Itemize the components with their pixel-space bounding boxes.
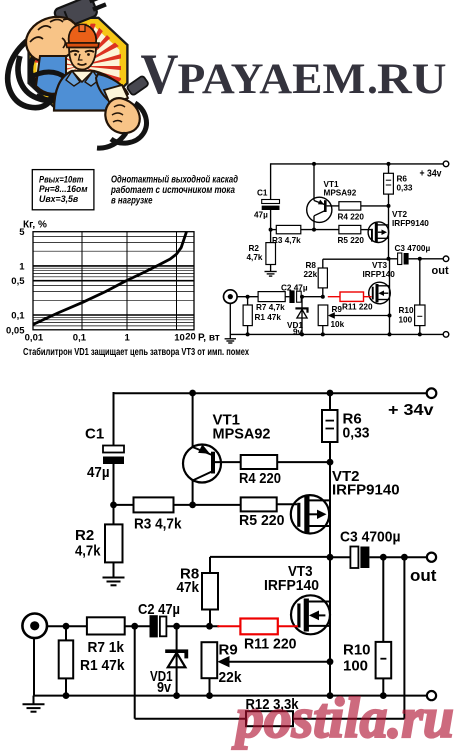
intro italic text [110, 174, 238, 206]
terminal +34v small [443, 161, 449, 167]
node R9 top small [321, 295, 325, 299]
terminal +34v [427, 388, 437, 398]
logo helmet [69, 25, 97, 44]
wire R2 top [113, 505, 115, 525]
resistor R7 small [258, 292, 285, 302]
graph x tick labels [25, 332, 196, 344]
wire R8 bottom small [322, 288, 324, 297]
svg-text:0,05: 0,05 [6, 325, 25, 336]
resistor R7 [87, 617, 125, 634]
svg-text:R5 220: R5 220 [338, 236, 365, 245]
node C3 junction [327, 554, 334, 561]
capacitor C1 [103, 446, 124, 453]
wire bottom rail small [230, 333, 443, 335]
wire VT1 base to R4 [215, 461, 241, 463]
svg-text:4,7k: 4,7k [75, 543, 101, 560]
node C1/R3/R2 small [269, 228, 273, 232]
wire R9 wiper arrow [226, 661, 330, 663]
logo cable end right [126, 75, 149, 95]
wire C1 bottom small [270, 210, 272, 230]
graph horizontal gridlines [33, 236, 194, 326]
resistor R12 [246, 711, 293, 726]
wire R4 to vertical [277, 461, 330, 463]
node R10 top small [418, 257, 422, 261]
svg-text:R1 47k: R1 47k [80, 657, 125, 674]
logo cable across forearm [30, 72, 66, 78]
wire R9 arrow small [333, 315, 390, 317]
wire main vertical small [388, 194, 390, 259]
logo plug [53, 0, 108, 30]
svg-text:0,33: 0,33 [343, 425, 370, 442]
svg-text:1: 1 [19, 261, 25, 272]
zener VD1 [176, 626, 178, 695]
node R9 arrow junction [327, 658, 334, 665]
node R4 vertical junction [327, 459, 334, 466]
wire jack to R7 [47, 625, 87, 627]
svg-text:9v: 9v [157, 679, 172, 696]
wire R5 VT2 gate small [361, 229, 371, 231]
svg-text:+ 34v: + 34v [388, 402, 434, 419]
PARAMBOX_GROUP [32, 170, 238, 210]
svg-text:100: 100 [343, 658, 368, 675]
resistor R1 [65, 626, 67, 640]
mosfet VT2 small [368, 222, 389, 243]
svg-text:Рн=8...16ом: Рн=8...16ом [39, 184, 88, 194]
resistor R3 [134, 497, 174, 512]
svg-text:MPSA92: MPSA92 [213, 426, 271, 443]
wire C3 out small [409, 258, 444, 260]
svg-text:C1: C1 [85, 426, 104, 443]
node VT1 collector junction [189, 502, 196, 509]
wire bottom rail [34, 695, 428, 697]
svg-text:Рвых=10вт: Рвых=10вт [39, 174, 84, 184]
wire to C3 [330, 556, 350, 558]
svg-text:22k: 22k [219, 669, 243, 686]
svg-text:IRFP140: IRFP140 [363, 270, 396, 279]
WATERMARK [231, 687, 454, 750]
svg-text:C2 47µ: C2 47µ [138, 601, 180, 618]
svg-text:MPSA92: MPSA92 [324, 189, 357, 198]
graph y tick labels [6, 227, 25, 336]
svg-text:R4 220: R4 220 [338, 213, 365, 222]
svg-text:R10: R10 [343, 642, 371, 659]
svg-text:22k: 22k [304, 270, 318, 279]
wire R7 to C2 [125, 625, 150, 627]
svg-text:R2: R2 [75, 527, 94, 544]
logo face [69, 48, 96, 70]
mosfet VT3 [291, 595, 330, 634]
GRAPH_GROUP [6, 220, 220, 344]
capacitor C2 small [285, 296, 289, 298]
node arrow junction small [388, 314, 392, 318]
node feedback top junction [401, 554, 408, 561]
logo cable extra loop [18, 56, 74, 101]
logo cable right [111, 103, 146, 143]
svg-text:R11 220: R11 220 [244, 636, 297, 653]
svg-text:VT2: VT2 [392, 210, 407, 219]
SMALL_SCHEMATIC [224, 161, 449, 343]
svg-text:Кг, %: Кг, % [23, 220, 47, 231]
node R1 bottom junction [63, 692, 70, 699]
svg-text:Р, вт: Р, вт [198, 333, 220, 344]
param box text [39, 174, 88, 204]
svg-text:R11 220: R11 220 [342, 303, 373, 312]
svg-text:10: 10 [174, 333, 185, 344]
svg-text:в нагрузке: в нагрузке [111, 195, 153, 206]
wire C2 to R9 node [166, 625, 219, 627]
svg-text:C1: C1 [257, 189, 268, 198]
node VD1 top junction [173, 623, 180, 630]
svg-text:IRFP9140: IRFP9140 [392, 219, 429, 228]
svg-text:0,33: 0,33 [397, 184, 413, 193]
svg-text:C2 47µ: C2 47µ [281, 284, 308, 293]
node VT3 source rail junction [327, 692, 334, 699]
svg-text:IRFP140: IRFP140 [264, 577, 319, 594]
node VD1 top small [300, 295, 304, 299]
mosfet VT3 small [369, 282, 391, 304]
wire feedback right [293, 718, 404, 720]
transistor VT1 [183, 445, 221, 483]
terminal out [427, 553, 436, 562]
resistor R8 [202, 573, 218, 610]
svg-text:C3 4700µ: C3 4700µ [395, 244, 431, 253]
capacitor C3 [350, 547, 358, 569]
svg-text:R1 47k: R1 47k [255, 313, 282, 322]
wire R5 to VT2 gate [277, 503, 298, 505]
wire R8 top small [322, 259, 324, 268]
wire C1 small [270, 163, 272, 199]
node R10 bottom junction [380, 692, 387, 699]
resistor R10 small [419, 259, 421, 305]
node VT1 emitter rail junction [189, 390, 196, 397]
node R9 top junction [206, 623, 213, 630]
svg-text:работает с источником тока: работает с источником тока [110, 185, 235, 196]
svg-text:0,5: 0,5 [11, 276, 25, 287]
wire R3 to R5 [174, 504, 241, 506]
resistor R6 small [388, 164, 390, 173]
wire C1 bottom [113, 464, 115, 505]
resistor R3 small [276, 225, 301, 233]
svg-text:0,1: 0,1 [11, 311, 25, 322]
graph frame [33, 232, 194, 330]
BIG_SCHEMATIC [22, 388, 436, 726]
wire R3 R5 small [271, 229, 277, 231]
resistor R10 [382, 557, 384, 642]
svg-text:V: V [141, 43, 179, 106]
wire R4 junction small [361, 205, 389, 207]
node R1 top small [246, 295, 250, 299]
node R6 top rail junction [327, 390, 334, 397]
wire R8 top [209, 557, 211, 573]
wire junction to R3 [114, 504, 134, 506]
svg-text:0,1: 0,1 [73, 333, 87, 344]
wire VT3 right vertical [329, 557, 331, 695]
resistor R5 small [339, 225, 361, 233]
input jack small [224, 290, 238, 304]
svg-text:R9: R9 [219, 642, 238, 659]
svg-text:R3 4,7k: R3 4,7k [134, 516, 182, 533]
svg-text:R7 4,7k: R7 4,7k [256, 303, 285, 312]
svg-text:47µ: 47µ [254, 211, 268, 220]
svg-text:RU: RU [377, 55, 447, 103]
graph vertical gridlines [82, 232, 177, 330]
capacitor C2 [150, 615, 158, 637]
mosfet VT2 [291, 495, 329, 533]
logo torso shirt [54, 71, 128, 111]
svg-text:R6: R6 [397, 175, 408, 184]
terminal bottom small [443, 332, 449, 338]
svg-text:R4 220: R4 220 [239, 470, 281, 487]
svg-text:47µ: 47µ [87, 464, 110, 481]
logo cable through fist [44, 20, 64, 52]
svg-text:R10: R10 [399, 306, 414, 315]
wire C1 top [113, 392, 115, 446]
resistor R11 red [217, 619, 298, 635]
terminal out small [443, 256, 449, 262]
wire VT1 base R4 small [327, 205, 339, 207]
svg-text:4,7k: 4,7k [247, 253, 263, 262]
capacitor C1 small [262, 200, 280, 204]
logo cable left loops [8, 24, 56, 108]
resistor R2 [105, 524, 123, 562]
node R9 bottom junction [206, 692, 213, 699]
node dots bottom rail small [246, 332, 250, 336]
node VD1 bottom junction [173, 692, 180, 699]
logo right cuff [104, 85, 128, 104]
svg-text:47k: 47k [177, 579, 200, 596]
wire feedback loop [134, 626, 136, 719]
node C1/R3/R2 junction [110, 502, 117, 509]
svg-text:C3 4700µ: C3 4700µ [340, 529, 401, 546]
resistor R2 small [270, 230, 272, 243]
svg-text:+ 34v: + 34v [420, 168, 442, 180]
zener VD1 small [301, 297, 303, 335]
wire main vertical R6 to C3 node [329, 442, 331, 557]
wire top rail small [271, 163, 444, 165]
ground jack small [229, 303, 231, 338]
svg-text:1: 1 [125, 333, 131, 344]
svg-text:10k: 10k [331, 320, 345, 329]
logo right arm sleeve [96, 74, 128, 104]
svg-text:PAYAEM: PAYAEM [178, 55, 366, 103]
ground R2 [103, 577, 125, 579]
svg-text:5: 5 [19, 227, 25, 238]
node feedback bottom junction [131, 623, 138, 630]
transistor VT1 small [307, 197, 332, 222]
wire R2 bottom [113, 562, 115, 577]
node R10 top junction [380, 554, 387, 561]
svg-text:out: out [410, 566, 437, 585]
wire jack to ground rail [33, 638, 35, 696]
node R1 top junction [63, 623, 70, 630]
svg-text:out: out [432, 265, 449, 277]
svg-text:R3 4,7k: R3 4,7k [272, 236, 301, 245]
param box frame [32, 170, 94, 210]
wire jack R7 small [237, 296, 258, 298]
logo red rays [29, 12, 130, 114]
resistor R8 small [318, 268, 327, 288]
svg-text:IRFP9140: IRFP9140 [332, 482, 400, 499]
graph curve [33, 232, 187, 325]
LOGO_GROUP [8, 0, 149, 148]
svg-text:0,01: 0,01 [25, 333, 44, 344]
resistor R5 [241, 497, 277, 511]
svg-text:R2: R2 [249, 244, 260, 253]
svg-text:postila.ru: postila.ru [231, 687, 454, 750]
logo left forearm [36, 56, 66, 94]
wire top rail [114, 392, 427, 394]
logo right fist [105, 98, 139, 133]
TITLE_GROUP [141, 43, 447, 106]
svg-text:Uвх=3,5в: Uвх=3,5в [39, 194, 79, 204]
svg-text:R5 220: R5 220 [239, 512, 285, 529]
node VT1 collector small [312, 228, 316, 232]
resistor R4 [241, 455, 278, 469]
input jack [22, 614, 47, 639]
logo left fist [26, 17, 79, 62]
resistor R1 small [247, 297, 249, 305]
svg-text:R7 1k: R7 1k [88, 639, 125, 656]
svg-text:100: 100 [399, 316, 413, 325]
resistor R11 small red [328, 292, 372, 301]
node VT1 emitter rail small [312, 162, 316, 166]
node R6 top rail small [387, 162, 391, 166]
resistor R4 small [339, 202, 361, 210]
ground input [33, 696, 35, 705]
svg-text:R9: R9 [332, 305, 343, 314]
svg-text:Однотактный выходной каскад: Однотактный выходной каскад [111, 174, 238, 185]
resistor R9 trimmer [202, 642, 218, 678]
ground R2 small [270, 265, 272, 272]
wire C2 R9 small [301, 296, 323, 298]
resistor R9 small trimmer [318, 305, 328, 326]
wire R8 bottom [209, 610, 211, 627]
svg-text:20: 20 [185, 332, 196, 343]
node C3 junction small [387, 257, 391, 261]
logo octagon badge [29, 18, 128, 110]
svg-text:Стабилитрон VD1 защищает цепь: Стабилитрон VD1 защищает цепь затвора VT… [23, 346, 249, 358]
capacitor C3 small [389, 258, 398, 260]
resistor R6 [329, 393, 331, 410]
svg-text:VT3: VT3 [372, 261, 387, 270]
wire VT3 vertical small [389, 259, 391, 335]
wire C3 to out [369, 556, 427, 558]
logo collar [72, 71, 93, 82]
svg-text:R8: R8 [306, 261, 317, 270]
terminal out bottom [427, 691, 436, 700]
